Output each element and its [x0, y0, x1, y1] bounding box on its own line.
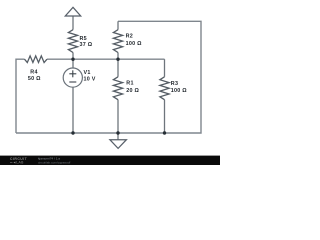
svg-text:100 Ω: 100 Ω — [171, 88, 187, 94]
svg-text:10 V: 10 V — [84, 77, 96, 83]
svg-text:═◄LAB: ═◄LAB — [9, 161, 24, 165]
svg-text:R1: R1 — [126, 81, 133, 87]
svg-text:circuitlab.com/cqpasudf: circuitlab.com/cqpasudf — [38, 160, 70, 164]
svg-text:R2: R2 — [126, 34, 133, 40]
svg-text:37 Ω: 37 Ω — [80, 42, 93, 48]
svg-text:V1: V1 — [84, 70, 91, 76]
svg-text:R4: R4 — [30, 70, 37, 76]
svg-text:100 Ω: 100 Ω — [126, 41, 142, 47]
svg-text:20 Ω: 20 Ω — [126, 88, 139, 94]
svg-text:50 Ω: 50 Ω — [28, 76, 41, 82]
svg-text:R3: R3 — [171, 81, 178, 87]
